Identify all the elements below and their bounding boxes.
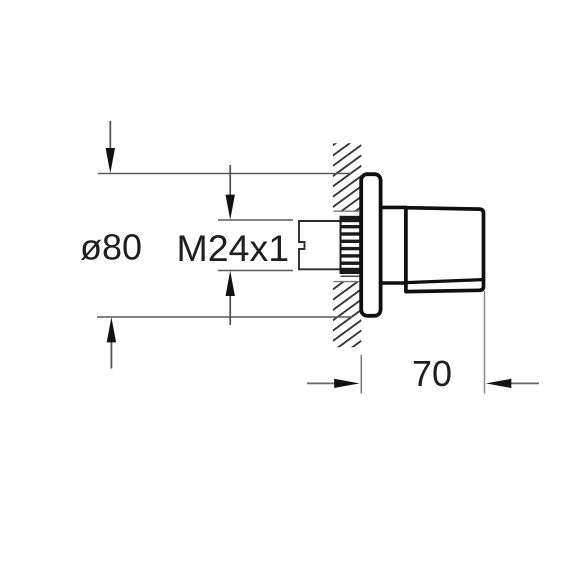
knob handle body [406, 208, 484, 292]
spline bottom collar line [341, 275, 360, 277]
wall hole top edge [334, 210, 360, 212]
neck bottom line [381, 281, 407, 285]
dimension line Ø80 bottom extension [97, 316, 352, 318]
extension line wall face [360, 355, 362, 394]
arrow M24 top (down) [226, 165, 235, 220]
wall section hatch [333, 114, 362, 372]
dimension 70 right arrow (points left) [486, 379, 539, 388]
dimension 70 left arrow (points right) [307, 379, 360, 388]
svg-text:ø80: ø80 [80, 227, 142, 268]
wall hole bottom edge [334, 281, 360, 283]
svg-text:70: 70 [412, 353, 452, 394]
dimension line M24 top [218, 219, 293, 221]
knob end-cap inner line [406, 280, 483, 283]
dimension line Ø80 top extension [98, 173, 351, 175]
extension line knob end [484, 291, 486, 394]
flange (escutcheon) [361, 174, 380, 316]
threaded spline section [340, 216, 362, 276]
svg-text:M24x1: M24x1 [177, 227, 290, 269]
spindle body behind wall [299, 221, 340, 269]
dimension line M24 bottom [218, 270, 293, 272]
arrow Ø80 bottom (up) [107, 317, 116, 368]
arrow M24 bottom (up) [226, 271, 235, 325]
arrow Ø80 top (down) [106, 121, 115, 173]
neck top line [381, 206, 407, 210]
